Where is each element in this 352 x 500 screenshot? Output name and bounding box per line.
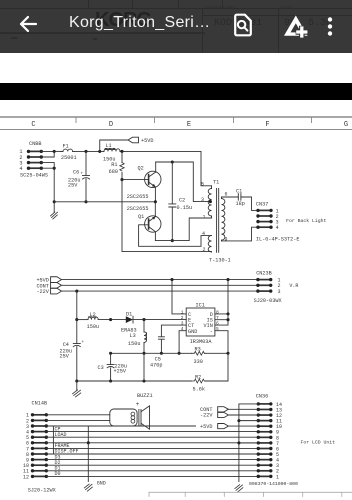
resistor R1 680 bbox=[109, 151, 125, 181]
svg-text:2: 2 bbox=[202, 247, 205, 253]
power flag +5VD (top) bbox=[100, 137, 154, 151]
wire CN36 ground bus bbox=[237, 404, 258, 482]
svg-text:1: 1 bbox=[181, 309, 184, 315]
fuse F1 25001 bbox=[61, 144, 77, 162]
svg-text:T1: T1 bbox=[213, 179, 219, 185]
svg-text:4: 4 bbox=[202, 231, 205, 237]
wire D1 to IC1 pin2 bbox=[133, 318, 186, 321]
wire CN14B ground drop x88 bbox=[87, 426, 90, 482]
back arrow icon bbox=[16, 14, 38, 36]
svg-text:5: 5 bbox=[201, 181, 204, 187]
svg-text:SC25-04WS: SC25-04WS bbox=[20, 173, 48, 179]
wire Q1 emitter rail to T1 pin1 bbox=[155, 218, 211, 241]
svg-text:GND: GND bbox=[97, 481, 106, 487]
wire (row6 gnd) CN14B pin6 to CN36 pin7 bbox=[46, 442, 258, 444]
wire +5V drop to IC1 pins 8,7,6 (D, IS, VIN) bbox=[215, 280, 230, 326]
wire fuse to L1 node bbox=[75, 150, 105, 153]
svg-text:+5VD: +5VD bbox=[141, 138, 153, 144]
svg-text:VIN: VIN bbox=[204, 323, 213, 329]
svg-text:BUZZ1: BUZZ1 bbox=[137, 393, 153, 399]
svg-text:Q2: Q2 bbox=[138, 165, 144, 171]
ground (CN14B side) GND bbox=[84, 481, 105, 492]
wire D0 CN14B pin12 to CN36 pin1 bbox=[46, 475, 258, 477]
svg-text:CN14B: CN14B bbox=[32, 400, 48, 406]
wire LOAD CN14B pin5 to CN36 pin8 bbox=[46, 436, 258, 438]
svg-text:V.R: V.R bbox=[289, 283, 298, 289]
wire L1 out node bbox=[120, 150, 201, 153]
svg-text:E: E bbox=[187, 121, 191, 129]
wire +5V rail to T1 pin5 bbox=[201, 151, 212, 185]
svg-text:18p: 18p bbox=[236, 201, 245, 207]
wire output rail y353 bbox=[109, 352, 230, 355]
ground (CN36 side) bbox=[235, 485, 243, 492]
node Q2e-Q1c junction to left 0V rail bbox=[54, 200, 157, 203]
svg-text:CN37: CN37 bbox=[256, 202, 268, 208]
svg-text:25001: 25001 bbox=[61, 155, 77, 161]
toolbar bbox=[0, 0, 352, 53]
svg-text:C: C bbox=[31, 121, 35, 129]
svg-text:150u: 150u bbox=[87, 324, 99, 330]
power flag -22V (mid-left) bbox=[36, 288, 61, 295]
svg-text:L3: L3 bbox=[130, 333, 136, 339]
wire T1 pin6 to C1 bbox=[222, 196, 239, 198]
transformer T1 T-130-1 bbox=[201, 179, 231, 263]
capacitor C5 470p (on CT pin) bbox=[150, 325, 186, 368]
svg-text:For LCD Unit: For LCD Unit bbox=[301, 440, 336, 446]
inductor L1 150u bbox=[103, 143, 120, 163]
svg-text:4: 4 bbox=[19, 166, 22, 172]
wire Q2 base node to T1 pin2 bbox=[122, 180, 212, 252]
svg-text:C6: C6 bbox=[73, 169, 79, 175]
inductor L2 150u bbox=[77, 312, 99, 330]
resistor R2 5.6k bbox=[192, 374, 206, 392]
wire R1 node to Q2 base bbox=[122, 179, 149, 181]
svg-text:2SC2655: 2SC2655 bbox=[127, 194, 149, 200]
svg-text:SJ20-12WX: SJ20-12WX bbox=[28, 487, 57, 493]
wire IC1 GND pin to output rail bbox=[178, 331, 187, 355]
svg-text:-: - bbox=[210, 329, 213, 335]
svg-text:6: 6 bbox=[216, 321, 219, 327]
overflow menu icon bbox=[325, 16, 335, 38]
svg-text:12: 12 bbox=[23, 474, 29, 480]
ground (middle section) bbox=[73, 381, 81, 397]
capacitor C1 18p bbox=[236, 189, 245, 208]
wire D2 CN14B pin10 to CN36 pin3 bbox=[46, 464, 258, 466]
svg-text:008370-141000-800: 008370-141000-800 bbox=[249, 481, 298, 487]
svg-text:T-130-1: T-130-1 bbox=[209, 257, 231, 263]
wire CN14B pin3 stub (+5VD net) bbox=[46, 425, 195, 427]
svg-text:4: 4 bbox=[276, 225, 279, 231]
wire feedback node to R2 bbox=[205, 353, 228, 381]
wire CONT rail (middle) bbox=[61, 284, 258, 286]
add-to-drive icon bbox=[283, 14, 309, 39]
wire CN14B pin1 to buzzer bbox=[46, 414, 110, 416]
title text bbox=[69, 14, 210, 32]
capacitor C2 0.15u bbox=[169, 162, 192, 242]
svg-text:-22V: -22V bbox=[200, 413, 213, 419]
svg-text:+: + bbox=[82, 340, 85, 345]
wire DISP.OFF CN14B pin8 to CN36 pin5 bbox=[46, 453, 258, 455]
svg-text:5.6k: 5.6k bbox=[193, 386, 205, 392]
capacitor C4 220u 25V bbox=[60, 320, 85, 383]
svg-text:4: 4 bbox=[181, 326, 184, 332]
wire CP CN14B pin4 to CN36 pin9 bbox=[46, 431, 258, 433]
wire Q1 base to T1 pin4 bbox=[139, 225, 212, 247]
power flag CONT (mid-left) bbox=[36, 282, 61, 289]
svg-text:1: 1 bbox=[202, 215, 205, 221]
connector CN37 bbox=[256, 202, 327, 243]
svg-text:D1: D1 bbox=[126, 311, 132, 317]
connector CN14B bbox=[23, 400, 57, 493]
svg-text:IR3M03A: IR3M03A bbox=[190, 339, 213, 345]
svg-text:6: 6 bbox=[225, 191, 228, 197]
svg-text:0.15u: 0.15u bbox=[177, 205, 193, 211]
svg-text:C4: C4 bbox=[63, 342, 69, 348]
wire Q2 collector top line bbox=[156, 160, 212, 203]
wire +5VD rail (middle) bbox=[61, 278, 258, 281]
svg-text:1: 1 bbox=[276, 474, 279, 480]
svg-text:+: + bbox=[81, 172, 84, 177]
wire D3 CN14B pin9 to CN36 pin4 bbox=[46, 459, 258, 461]
svg-text:CNBB: CNBB bbox=[29, 141, 41, 147]
find-in-page icon bbox=[233, 13, 253, 37]
svg-text:25V: 25V bbox=[68, 183, 78, 189]
svg-text:C3: C3 bbox=[98, 365, 104, 371]
power flag +5VD (CN36) bbox=[200, 424, 258, 430]
svg-text:SJ20-03WX: SJ20-03WX bbox=[254, 298, 283, 304]
wire CNBB pins 1-2 tie bbox=[41, 150, 55, 157]
power flag -22V (CN36) bbox=[200, 412, 258, 418]
wire C1 to CN37 pin1 bbox=[241, 197, 258, 210]
svg-text:+25V: +25V bbox=[114, 369, 127, 375]
wire +5V drop to IC1 pin1 C bbox=[172, 280, 186, 314]
svg-text:2: 2 bbox=[181, 315, 184, 321]
ground (CNBB) bbox=[51, 202, 58, 219]
wire T1 pin9 to CN37 pin4 bbox=[222, 227, 259, 241]
wire L2 to D1 bbox=[98, 318, 126, 321]
svg-text:IL-G-4P-S3T2-E: IL-G-4P-S3T2-E bbox=[256, 236, 300, 242]
transistor Q1 2SC2655 bbox=[127, 202, 161, 241]
faint document content behind translucent toolbar bbox=[95, 9, 151, 32]
svg-text:8: 8 bbox=[216, 309, 219, 315]
svg-text:470p: 470p bbox=[150, 362, 162, 368]
connector CNBB bbox=[19, 141, 48, 179]
wire L3 node to ground rail bbox=[143, 353, 145, 381]
svg-text:R1: R1 bbox=[111, 162, 117, 168]
svg-text:150u: 150u bbox=[128, 341, 140, 347]
buzzer BUZZ1 bbox=[110, 393, 153, 429]
power flag +5VD (mid-left) bbox=[36, 277, 61, 284]
svg-text:CN36: CN36 bbox=[256, 394, 268, 400]
black gap band between PDF pages bbox=[0, 83, 352, 100]
svg-text:25V: 25V bbox=[60, 354, 70, 360]
wire IC1 pin5 to feedback node bbox=[215, 331, 228, 354]
wire CN14B pin2 to buzzer bbox=[46, 419, 110, 421]
capacitor C6 220u 25V bbox=[68, 151, 90, 203]
next page top border bbox=[149, 492, 352, 496]
node bus labels CP LOAD FRAME DISP.OFF D3 D2 D1 D0 bbox=[55, 426, 79, 477]
svg-text:3: 3 bbox=[181, 321, 184, 327]
wire CNBB pins 3-4 tie to ground rail bbox=[41, 163, 55, 204]
wire -22V rail (middle) bbox=[61, 290, 258, 293]
svg-text:3: 3 bbox=[201, 197, 204, 203]
grid reference header row bbox=[0, 117, 352, 130]
svg-text:F: F bbox=[265, 121, 269, 129]
transistor Q2 2SC2655 bbox=[127, 162, 161, 202]
wire -22V drop to D1 line bbox=[75, 291, 78, 321]
svg-text:680: 680 bbox=[109, 169, 118, 175]
wire row1 to fuse bbox=[54, 150, 62, 152]
inductor L3 150u bbox=[128, 320, 147, 355]
connector CN23B bbox=[254, 270, 299, 304]
resistor R3 330 bbox=[192, 347, 206, 365]
svg-text:330: 330 bbox=[194, 359, 203, 365]
svg-text:+5VD: +5VD bbox=[200, 424, 212, 430]
wire D1 CN14B pin11 to CN36 pin2 bbox=[46, 470, 258, 472]
wire FRAME CN14B pin7 to CN36 pin6 bbox=[46, 447, 258, 449]
svg-text:D: D bbox=[109, 121, 113, 129]
svg-text:G: G bbox=[344, 121, 348, 129]
svg-text:Q1: Q1 bbox=[138, 214, 144, 220]
svg-text:5: 5 bbox=[216, 326, 219, 332]
svg-text:2SC2655: 2SC2655 bbox=[127, 206, 149, 212]
svg-text:GND: GND bbox=[188, 329, 197, 335]
svg-text:-22V: -22V bbox=[36, 289, 49, 295]
capacitor C3 220u +25V bbox=[98, 353, 127, 381]
svg-text:For Back Light: For Back Light bbox=[286, 218, 326, 224]
svg-text:CN23B: CN23B bbox=[256, 270, 272, 276]
svg-text:C2: C2 bbox=[179, 197, 185, 203]
svg-text:3: 3 bbox=[278, 289, 281, 295]
connector CN36 bbox=[249, 394, 335, 488]
wire ground rail y381 bbox=[77, 379, 192, 382]
wire CN14B row3-row8 tie bbox=[52, 426, 54, 454]
svg-text:+: + bbox=[136, 401, 140, 408]
IC U1 IR3M03A bbox=[181, 303, 219, 345]
diode D1 ERA83 bbox=[121, 311, 137, 333]
power flag CONT (CN36) bbox=[200, 407, 258, 413]
